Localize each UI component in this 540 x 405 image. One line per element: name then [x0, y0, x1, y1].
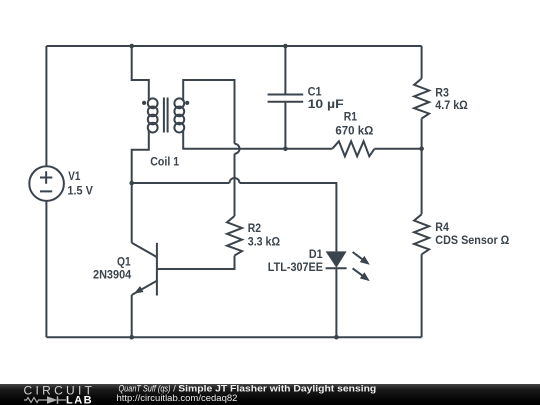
footer logo diode	[42, 399, 47, 401]
svg-text:3.3 kΩ: 3.3 kΩ	[248, 234, 281, 248]
transformer core	[164, 98, 168, 133]
voltage source V1	[29, 166, 64, 201]
wire R3 bottom / R4 top	[421, 119, 423, 215]
wire B continues to D1 top	[240, 183, 337, 251]
wire vertical to R2	[234, 154, 236, 216]
resistor R4	[414, 214, 429, 254]
LED D1 arrows	[353, 252, 370, 281]
wire R4 bottom	[421, 254, 423, 337]
node D1 bottom junction	[334, 335, 339, 340]
svg-text:D1: D1	[309, 247, 323, 261]
wire top rail	[46, 45, 421, 47]
svg-text:LTL-307EE: LTL-307EE	[268, 260, 323, 274]
svg-text:LAB: LAB	[66, 395, 93, 405]
wire B: collector tap to D1	[132, 182, 230, 184]
svg-text:670 kΩ: 670 kΩ	[335, 123, 373, 137]
wire C1 bottom	[284, 102, 286, 149]
LED D1	[326, 251, 347, 267]
node R1/R3/R4 junction	[419, 147, 424, 152]
svg-text:10 µF: 10 µF	[308, 97, 344, 111]
svg-text:Coil 1: Coil 1	[150, 154, 179, 168]
node collector tap junction	[129, 181, 134, 186]
transformer Coil 1 right winding	[174, 98, 184, 108]
svg-text:Q1: Q1	[117, 254, 131, 268]
svg-text:R1: R1	[344, 109, 358, 123]
svg-text:2N3904: 2N3904	[93, 267, 131, 281]
resistor R1	[332, 141, 374, 156]
svg-text:4.7 kΩ: 4.7 kΩ	[435, 98, 468, 112]
resistor R3	[414, 79, 429, 119]
wire R3 top	[421, 46, 423, 79]
wire left rail upper	[45, 46, 47, 166]
wire R1 right to node	[375, 148, 422, 150]
wire coil left top drop	[132, 46, 149, 101]
transistor Q1	[156, 243, 158, 296]
transistor Q1 emitter arrowhead	[134, 286, 144, 294]
wire coil right top link	[183, 80, 234, 144]
wire coil left bottom to collector	[132, 131, 149, 243]
wire bottom rail	[46, 336, 421, 338]
node emitter bottom junction	[129, 335, 134, 340]
svg-text:R2: R2	[248, 221, 262, 235]
node top coil junction	[129, 44, 134, 49]
wire R2 bottom to Q1 base	[157, 256, 235, 270]
footer logo resistor	[24, 398, 42, 403]
wire C1 top	[284, 46, 286, 94]
capacitor C1	[268, 95, 304, 102]
node top C1 junction	[283, 44, 288, 49]
transformer Coil 1 left winding	[148, 98, 158, 108]
wire D1 bottom	[335, 268, 337, 337]
resistor R2	[227, 216, 242, 256]
wire left rail lower	[45, 201, 47, 337]
wire hop B over vertical	[230, 178, 240, 183]
node wire A / C1 junction	[283, 147, 288, 152]
svg-text:1.5 V: 1.5 V	[67, 183, 93, 197]
wire hop vertical over wire A	[235, 144, 240, 154]
svg-text:http://circuitlab.com/cedaq82: http://circuitlab.com/cedaq82	[117, 393, 238, 404]
phase dot left	[142, 101, 146, 105]
footer bar	[0, 384, 540, 405]
svg-text:V1: V1	[68, 169, 80, 183]
wire A: coil right bottom to R1 left	[183, 131, 332, 149]
svg-text:CDS Sensor Ω: CDS Sensor Ω	[435, 233, 509, 247]
phase dot right	[185, 101, 189, 105]
